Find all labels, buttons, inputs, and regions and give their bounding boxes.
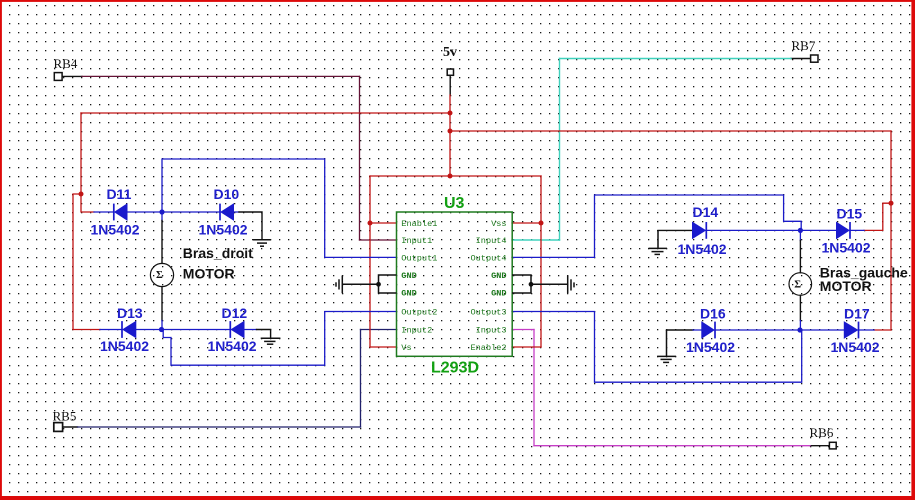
wire net 5V stub to D17 cathode: [874, 329, 891, 331]
ground (D16 anode): [657, 330, 676, 362]
svg-text:RB7: RB7: [792, 38, 816, 53]
wire net 5V into IC pin Vss: [512, 222, 541, 224]
wire black to ground after D12: [257, 330, 271, 339]
wire net 5V into IC pin Vs: [370, 346, 397, 348]
node 5v power terminal: [447, 69, 453, 75]
GND bracket left pins: [379, 275, 397, 293]
svg-text:GND: GND: [401, 271, 416, 281]
junction node A right motor: [798, 228, 803, 233]
wire net RB6 into IC pin Input3: [512, 329, 534, 331]
svg-text:Bras_droit: Bras_droit: [183, 245, 253, 261]
wire black stub terminal RB7: [791, 58, 810, 60]
diode D10: [220, 204, 234, 221]
svg-text:1N5402: 1N5402: [678, 241, 727, 257]
wire net 5V stub to D13 cathode: [73, 329, 100, 331]
svg-text:1N5402: 1N5402: [831, 339, 880, 355]
wire black stub terminal RB4: [62, 75, 82, 77]
svg-text:GND: GND: [401, 289, 416, 299]
wire net Output1: IC to node A loop: [162, 159, 397, 257]
wire left motor top row D11-D10 (blue): [94, 211, 239, 213]
wire left motor bottom row D13-D12 (blue): [100, 329, 257, 331]
wire black ground to D16 anode: [667, 329, 694, 331]
svg-text:U3: U3: [444, 195, 465, 212]
ground (D14 anode): [649, 230, 668, 254]
wire net 5V jog at left rail: [73, 194, 81, 330]
wire black motor pin top (right motor): [799, 241, 801, 273]
op-amp U3 body: [397, 212, 513, 356]
svg-text:Input4: Input4: [476, 236, 507, 246]
svg-text:1N5402: 1N5402: [199, 222, 248, 238]
wire black motor pin bottom (left motor): [161, 287, 163, 321]
wire net 5V vertical from terminal (red): [449, 95, 451, 176]
junction node B left motor: [159, 327, 164, 332]
diode D11: [114, 204, 127, 221]
wire right motor branch bottom: [799, 321, 801, 331]
svg-text:1N5402: 1N5402: [686, 339, 735, 355]
svg-text:L293D: L293D: [431, 360, 479, 377]
junction Vss tap: [539, 221, 544, 226]
wire right motor branch top: [799, 230, 801, 240]
svg-text:Output3: Output3: [470, 308, 506, 318]
svg-text:MOTOR: MOTOR: [820, 278, 872, 294]
svg-text:Vs: Vs: [401, 343, 411, 353]
node RB5 terminal: [54, 423, 63, 432]
diode D14: [693, 222, 707, 239]
wire net 5V horizontal to right rail: [450, 130, 891, 132]
wire net RB7 into IC pin Input4: [512, 239, 560, 241]
ground (IC left GND): [336, 276, 379, 294]
svg-text:Σ: Σ: [794, 280, 801, 291]
wire net Output3: IC loop to right node B: [512, 312, 802, 383]
junction Enable1 tap: [368, 221, 373, 226]
wire black motor pin bottom (right motor): [799, 295, 801, 320]
diode D16: [702, 322, 715, 339]
node RB7 terminal: [811, 55, 818, 62]
svg-text:Output2: Output2: [401, 308, 437, 318]
junction 5v/right-rail: [448, 129, 453, 134]
node RB4 terminal: [54, 73, 62, 81]
wire net Output2: IC to node B jog: [163, 312, 396, 366]
svg-text:RB5: RB5: [53, 409, 77, 424]
junction 5v-terminal/left-rail: [448, 111, 453, 116]
svg-text:Output4: Output4: [470, 253, 506, 263]
wire net 5V left vertical to Vs: [369, 176, 371, 347]
wire net 5V into IC pin Enable1: [370, 222, 397, 224]
motor Bras_droit symbol: [150, 263, 173, 286]
ground (after D10): [253, 240, 271, 246]
svg-text:1N5402: 1N5402: [100, 338, 149, 354]
svg-text:Input1: Input1: [401, 236, 432, 246]
svg-text:GND: GND: [491, 289, 506, 299]
wire net RB5 vertical up to Input2: [360, 330, 362, 428]
wire right motor top row D14-D15 (blue): [706, 229, 864, 231]
ground (IC right GND): [531, 275, 574, 293]
junction left rail D11 branch: [79, 192, 84, 197]
wire net 5V horizontal to Vs/Vss: [370, 175, 541, 177]
wire net 5V branch to D15 cathode: [864, 203, 891, 230]
diode D12: [230, 321, 244, 338]
svg-text:5v: 5v: [443, 45, 457, 60]
svg-text:Σ: Σ: [156, 270, 163, 281]
wire net 5V stub to D11 cathode: [81, 194, 94, 212]
ground (after D12): [261, 338, 281, 344]
node RB6 terminal: [829, 442, 836, 449]
wire black ground to D14 anode: [658, 229, 693, 231]
wire net 5V left rail vertical: [80, 113, 82, 194]
svg-text:Enable1: Enable1: [401, 219, 437, 229]
svg-text:D15: D15: [837, 205, 863, 221]
wire net RB5 horizontal (navy): [78, 426, 361, 428]
svg-text:D10: D10: [214, 186, 240, 202]
svg-text:RB6: RB6: [810, 425, 834, 440]
wire net RB6 vertical up to Input3: [533, 330, 535, 446]
wire black motor pin top (left motor): [161, 221, 163, 264]
svg-text:Input3: Input3: [476, 326, 507, 336]
wire left motor branch bottom: [161, 321, 163, 330]
diode D17: [844, 322, 858, 339]
junction 5v/Vs-Vss rail: [448, 174, 453, 179]
pin Enable1: [401, 219, 506, 353]
wire net RB7 horizontal (teal): [560, 58, 792, 60]
svg-text:D16: D16: [700, 305, 726, 321]
svg-text:1N5402: 1N5402: [91, 222, 140, 238]
svg-text:MOTOR: MOTOR: [183, 266, 235, 282]
motor Bras_gauche symbol: [789, 273, 812, 296]
junction left GND bracket: [376, 282, 381, 287]
wire net RB4 into IC pin Input1: [360, 239, 397, 241]
svg-text:D13: D13: [117, 305, 143, 321]
svg-text:D12: D12: [222, 305, 248, 321]
diode D15: [837, 222, 851, 239]
svg-text:Enable2: Enable2: [470, 343, 506, 353]
junction right GND bracket: [529, 282, 534, 287]
GND bracket right pins: [512, 275, 531, 293]
wire net RB7 vertical down to Input4: [559, 59, 561, 241]
junction right rail D15 branch: [889, 201, 894, 206]
svg-text:RB4: RB4: [54, 56, 78, 71]
wire black stub terminal RB6: [810, 445, 830, 447]
wire left motor branch top: [161, 212, 163, 221]
svg-text:Input2: Input2: [401, 326, 432, 336]
wire right motor bottom row D16-D17 (blue): [693, 329, 874, 331]
junction node A left motor: [159, 209, 164, 214]
svg-text:D11: D11: [107, 186, 132, 202]
svg-text:1N5402: 1N5402: [822, 240, 871, 256]
wire net RB5 into IC pin Input2: [361, 329, 397, 331]
wire black stub power terminal 5v: [449, 76, 451, 95]
wire net 5V right rail vertical: [890, 131, 892, 330]
wire black to ground after D10: [239, 212, 262, 239]
svg-text:Vss: Vss: [491, 219, 506, 229]
wire net 5V right vertical to Enable2: [540, 176, 542, 347]
svg-text:D17: D17: [844, 305, 870, 321]
wire net Output4: IC staircase to right node A: [512, 195, 801, 257]
junction node B right motor: [797, 327, 802, 332]
svg-text:1N5402: 1N5402: [208, 338, 257, 354]
svg-text:Output1: Output1: [401, 253, 437, 263]
wire net RB6 horizontal (magenta): [534, 445, 810, 447]
wire net 5V into IC pin Enable2: [512, 346, 541, 348]
svg-text:GND: GND: [491, 271, 506, 281]
diode D13: [122, 321, 136, 338]
wire black stub terminal RB5: [63, 426, 78, 428]
wire net RB4 horizontal (maroon): [82, 75, 360, 77]
wire net 5V horizontal to left rail: [81, 112, 450, 114]
svg-text:D14: D14: [693, 204, 719, 220]
wire net RB4 vertical down to Input1: [359, 76, 361, 240]
